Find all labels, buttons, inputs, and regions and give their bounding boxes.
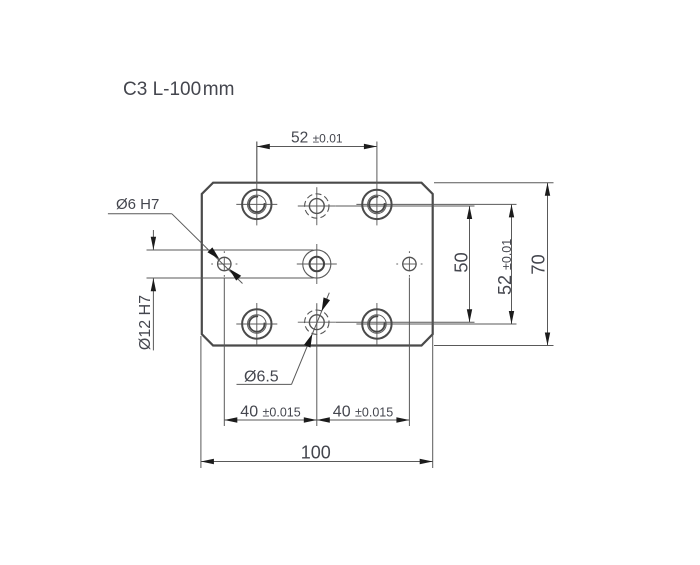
svg-text:50: 50	[450, 252, 471, 273]
svg-text:Ø6.5: Ø6.5	[244, 369, 279, 386]
svg-text:70: 70	[528, 254, 549, 275]
svg-text:52 ±0.01: 52 ±0.01	[291, 129, 343, 146]
svg-text:40 ±0.015: 40 ±0.015	[333, 404, 393, 421]
svg-text:Ø6 H7: Ø6 H7	[116, 196, 159, 213]
svg-text:C3 L-100 mm: C3 L-100 mm	[123, 79, 234, 100]
svg-text:40 ±0.015: 40 ±0.015	[240, 404, 300, 421]
svg-text:100: 100	[301, 443, 331, 463]
svg-text:52 ±0.01: 52 ±0.01	[495, 239, 515, 295]
svg-text:Ø12 H7: Ø12 H7	[137, 295, 154, 350]
